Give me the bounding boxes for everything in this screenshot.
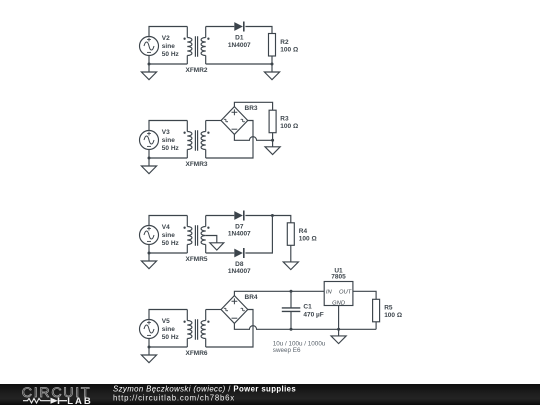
svg-text:sine: sine	[162, 232, 175, 239]
svg-text:sine: sine	[162, 326, 175, 333]
svg-text:R4: R4	[299, 228, 308, 235]
svg-text:7805: 7805	[331, 274, 346, 281]
svg-text:V4: V4	[162, 224, 170, 231]
svg-text:50 Hz: 50 Hz	[162, 145, 180, 152]
svg-text:1N4007: 1N4007	[228, 231, 251, 238]
svg-text:D8: D8	[235, 261, 244, 268]
svg-text:50 Hz: 50 Hz	[162, 334, 180, 341]
svg-text:1N4007: 1N4007	[228, 42, 251, 49]
svg-text:100 Ω: 100 Ω	[280, 46, 298, 53]
svg-text:XFMR3: XFMR3	[185, 161, 207, 168]
svg-text:V5: V5	[162, 318, 170, 325]
svg-text:1N4007: 1N4007	[228, 268, 251, 275]
svg-text:100 Ω: 100 Ω	[280, 123, 298, 130]
svg-text:sweep E6: sweep E6	[273, 347, 301, 354]
svg-text:50 Hz: 50 Hz	[162, 240, 180, 247]
svg-text:BR4: BR4	[245, 294, 258, 301]
svg-text:R2: R2	[280, 39, 289, 46]
svg-text:470 µF: 470 µF	[303, 312, 323, 319]
svg-text:LAB: LAB	[67, 396, 93, 405]
svg-text:100 Ω: 100 Ω	[299, 236, 317, 243]
svg-text:D7: D7	[235, 223, 244, 230]
svg-text:sine: sine	[162, 137, 175, 144]
svg-text:100 Ω: 100 Ω	[384, 312, 402, 319]
svg-text:sine: sine	[162, 43, 175, 50]
svg-text:IN: IN	[326, 290, 333, 296]
svg-text:BR3: BR3	[245, 105, 258, 112]
svg-text:OUT: OUT	[339, 290, 352, 296]
svg-text:XFMR5: XFMR5	[185, 256, 207, 263]
svg-text:R3: R3	[280, 116, 289, 123]
svg-text:XFMR6: XFMR6	[185, 350, 207, 357]
svg-text:R5: R5	[384, 305, 393, 312]
svg-text:50 Hz: 50 Hz	[162, 51, 180, 58]
svg-text:XFMR2: XFMR2	[185, 67, 207, 74]
svg-text:C1: C1	[303, 304, 312, 311]
svg-text:D1: D1	[235, 35, 244, 42]
svg-text:V2: V2	[162, 35, 170, 42]
svg-text:V3: V3	[162, 129, 170, 136]
svg-text:Szymon Bęczkowski (owiecc) / P: Szymon Bęczkowski (owiecc) / Power suppl…	[113, 384, 296, 393]
svg-text:http://circuitlab.com/ch78b6x: http://circuitlab.com/ch78b6x	[113, 393, 235, 402]
